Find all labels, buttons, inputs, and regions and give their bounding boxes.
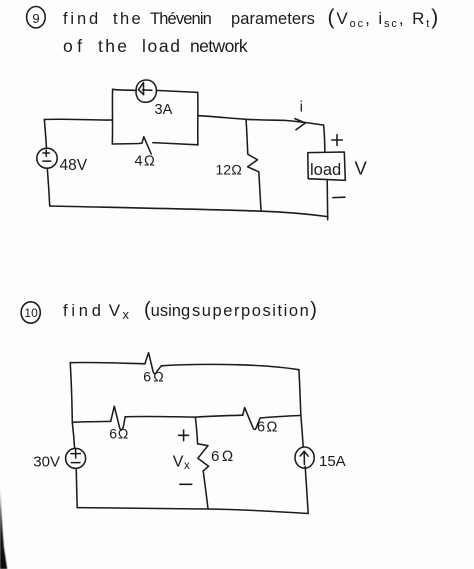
svg-text:6Ω: 6Ω	[143, 369, 165, 385]
resistor R1 4ohm (box bottom edge with zigzag)	[112, 137, 151, 154]
current source I2 15A	[295, 447, 314, 468]
wire: circuit 9 top-left horizontal	[44, 118, 112, 121]
wire: circuit 10 left vertical lower	[76, 468, 77, 507]
svg-text:6Ω: 6Ω	[109, 426, 129, 442]
svg-text:of: of	[63, 36, 86, 56]
wire: circuit 9 left vertical lower	[47, 168, 49, 206]
svg-text:find: find	[63, 10, 101, 28]
wire: circuit 10 bottom horizontal	[77, 508, 308, 514]
resistor R5 6ohm (middle right)	[243, 408, 261, 430]
svg-text:Thévenin: Thévenin	[150, 10, 212, 28]
label + (Vx)	[179, 430, 189, 441]
svg-text:4Ω: 4Ω	[135, 154, 157, 170]
wire: circuit 10 right vertical lower	[305, 466, 308, 513]
wire: center branch upper	[195, 417, 197, 444]
svg-text:superposition): superposition)	[192, 299, 319, 321]
svg-text:3A: 3A	[155, 102, 173, 118]
wire: box bottom edge right of R1	[153, 143, 198, 145]
wire: circuit 9 left vertical upper	[44, 120, 46, 149]
wire: circuit 10 right vertical middle	[301, 415, 303, 447]
resistor R3 6ohm (top)	[145, 353, 161, 374]
svg-text:30V: 30V	[33, 454, 60, 471]
wire: circuit 10 top edge right segment	[161, 364, 299, 369]
svg-text:parameters: parameters	[231, 10, 315, 28]
resistor R2 12ohm	[246, 119, 261, 210]
voltage source V2 30V	[66, 448, 86, 468]
current source I1 3A	[136, 80, 156, 102]
wire: circuit 10 right vertical upper	[299, 370, 301, 415]
problem 9 title line 2	[63, 36, 248, 56]
wire: load branch top	[324, 125, 325, 152]
svg-text:find: find	[63, 302, 105, 320]
svg-text:the: the	[98, 36, 129, 56]
svg-text:15A: 15A	[319, 453, 346, 470]
problem 10 title	[63, 299, 319, 322]
svg-text:6Ω: 6Ω	[257, 419, 279, 435]
svg-text:load: load	[142, 36, 182, 56]
wire: parallel box top edge right segment	[157, 90, 198, 92]
label + (load)	[332, 135, 343, 146]
wire: parallel box left edge	[111, 89, 113, 144]
svg-text:(Voc, isc, Rt): (Voc, isc, Rt)	[328, 6, 441, 30]
label minus (load)	[333, 196, 345, 198]
svg-text:load: load	[310, 161, 341, 179]
svg-text:network: network	[190, 36, 248, 56]
wire: middle rail far right segment	[260, 416, 300, 419]
wire: center branch lower	[203, 471, 208, 509]
svg-text:10: 10	[24, 306, 38, 320]
svg-text:i: i	[300, 99, 303, 116]
label minus (Vx)	[180, 483, 192, 485]
wire: load branch bottom	[326, 181, 329, 220]
wire: middle rail left segment	[72, 420, 110, 423]
current arrow i head	[295, 119, 305, 130]
wire: middle rail right segment	[195, 415, 242, 417]
wire: circuit 9 bottom horizontal	[50, 206, 328, 217]
problem 9 title line 1	[63, 6, 440, 30]
svg-text:6Ω: 6Ω	[211, 448, 236, 465]
wire: middle rail center segment	[125, 415, 195, 418]
wire: parallel box right edge	[197, 92, 199, 145]
wire: circuit 10 top edge with resistor R3	[70, 362, 145, 363]
wire: parallel box top edge left segment	[113, 89, 137, 90]
svg-text:(using: (using	[144, 299, 190, 321]
svg-text:9: 9	[32, 11, 39, 26]
svg-text:the: the	[113, 10, 143, 28]
svg-text:V: V	[355, 158, 368, 179]
resistor R6 6ohm (Vx)	[198, 444, 209, 471]
wire: circuit 10 left vertical middle	[72, 422, 74, 448]
voltage source V1 48V	[37, 148, 57, 168]
svg-text:48V: 48V	[60, 157, 88, 174]
svg-text:12Ω: 12Ω	[216, 162, 243, 178]
problem 9 number circle	[27, 7, 46, 28]
load box	[308, 152, 346, 180]
resistor R4 6ohm (middle left)	[111, 406, 126, 430]
wire: middle top horizontal to load corner	[198, 116, 324, 125]
page edge shadow	[0, 487, 7, 569]
wire: circuit 10 left vertical upper	[70, 363, 72, 423]
problem 10 number circle	[21, 302, 40, 323]
